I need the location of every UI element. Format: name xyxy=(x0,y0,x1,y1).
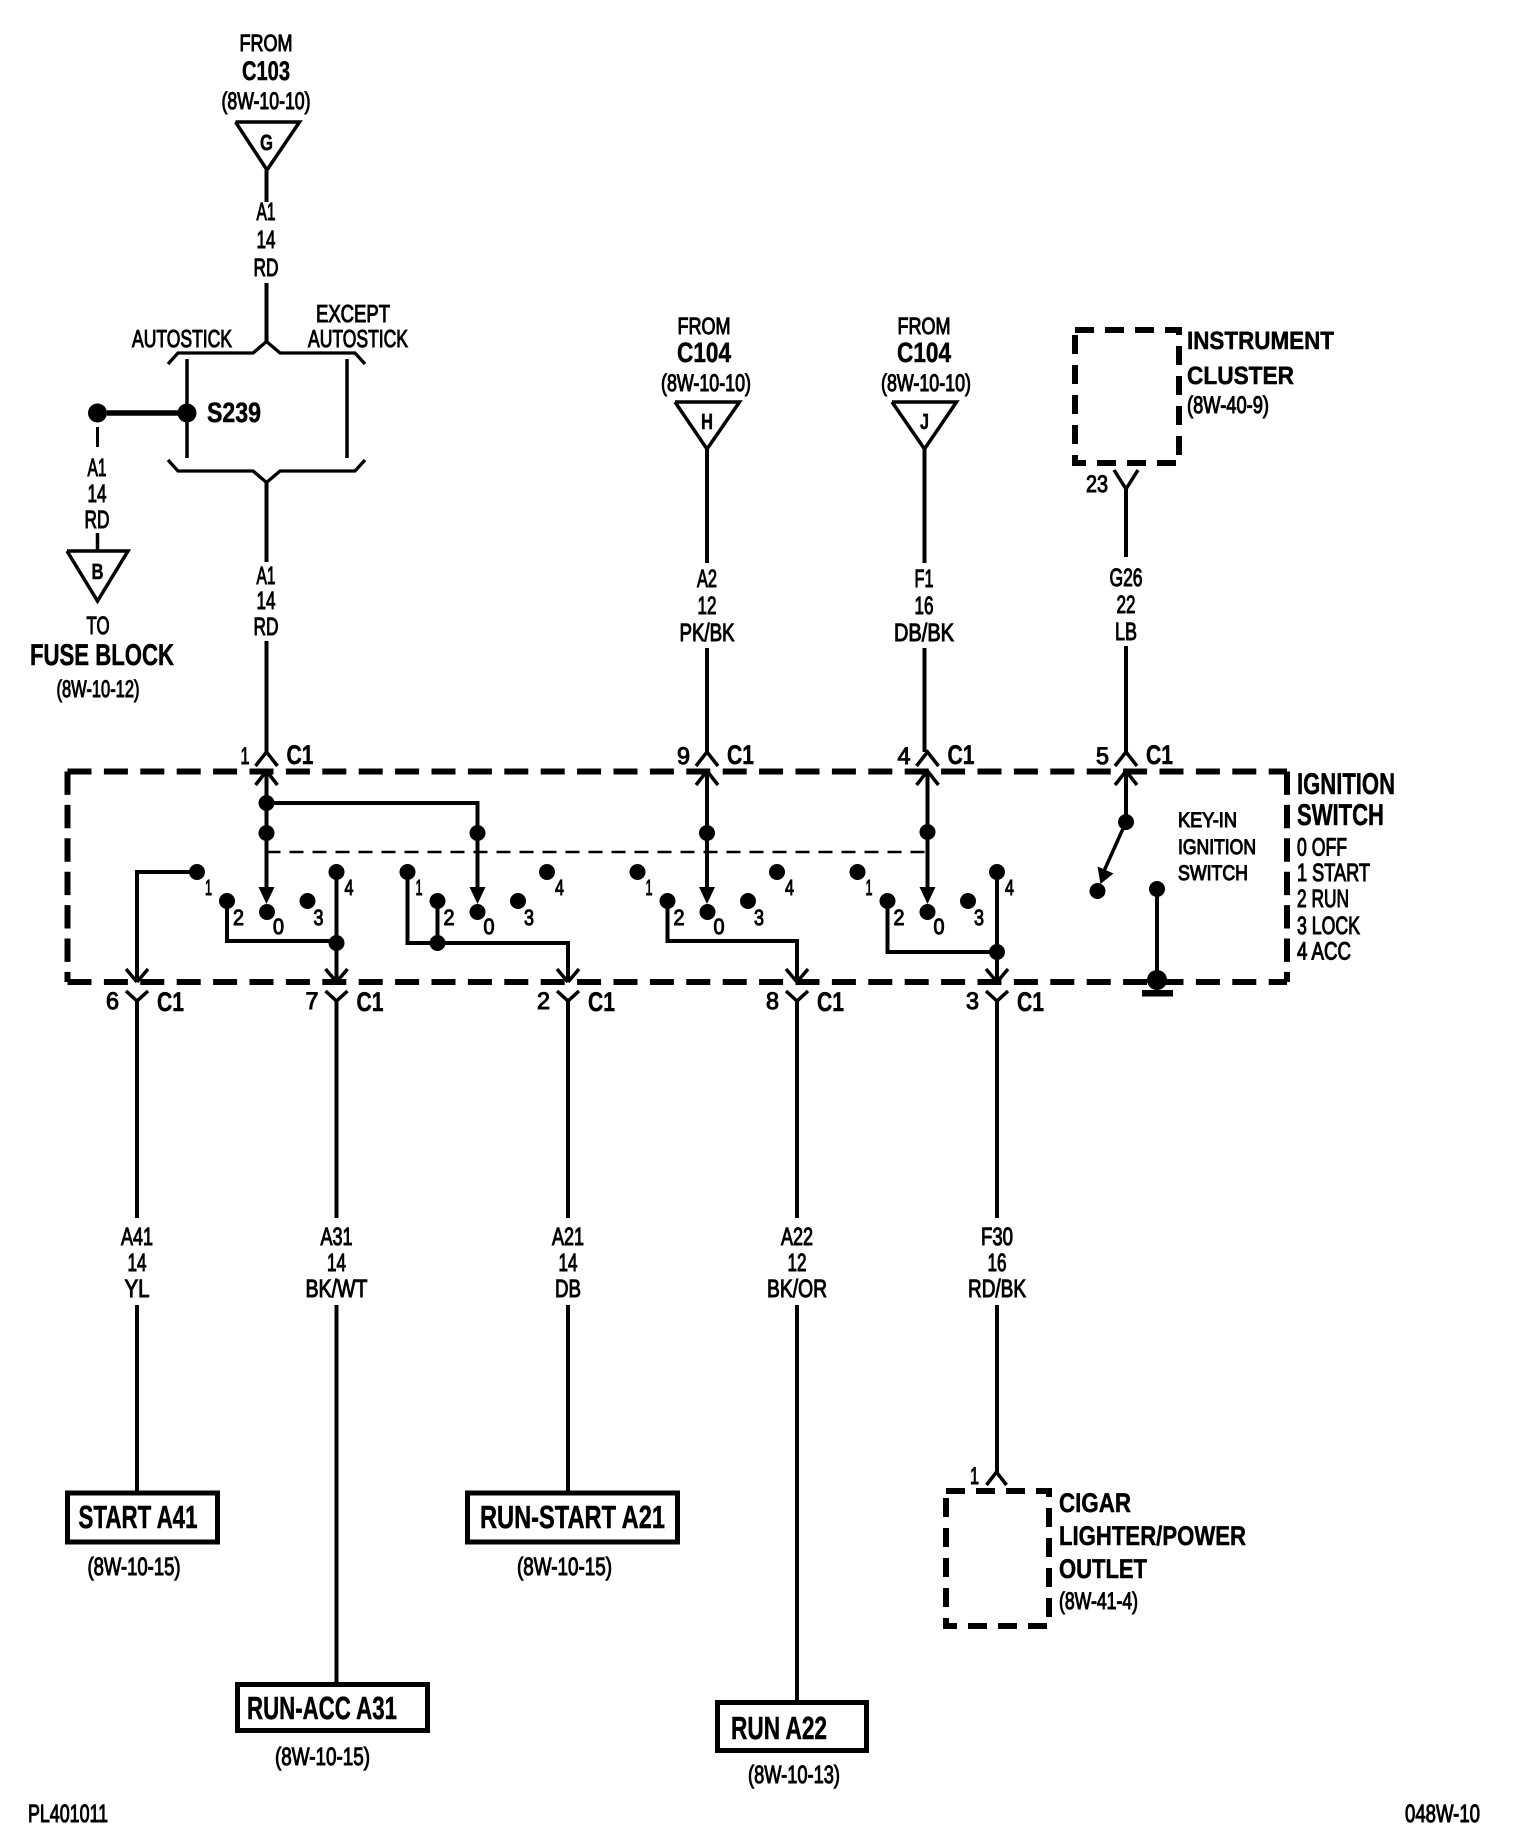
svg-text:14: 14 xyxy=(88,480,107,508)
svg-text:(8W-10-10): (8W-10-10) xyxy=(661,370,751,397)
svg-text:G26: G26 xyxy=(1110,564,1143,592)
wire pin9 feed to wiper 3 xyxy=(699,771,715,904)
key-in ignition switch xyxy=(1090,771,1135,899)
svg-text:FROM: FROM xyxy=(898,313,951,339)
node INSTRUMENT CLUSTER label xyxy=(1187,327,1334,419)
wire key-in switch to ground xyxy=(1149,881,1165,975)
svg-text:16: 16 xyxy=(988,1249,1007,1277)
svg-text:B: B xyxy=(92,559,104,584)
svg-text:0: 0 xyxy=(714,914,725,939)
svg-text:A1: A1 xyxy=(257,198,276,226)
svg-text:H: H xyxy=(701,409,713,434)
svg-text:SWITCH: SWITCH xyxy=(1297,799,1384,832)
svg-text:C1: C1 xyxy=(287,740,314,770)
connector C1 pin 1 xyxy=(241,740,314,785)
svg-text:14: 14 xyxy=(327,1249,346,1277)
wire F30 16 RD/BK (pin 3 to cigar lighter) xyxy=(968,1001,1026,1472)
svg-text:PK/BK: PK/BK xyxy=(680,619,735,647)
svg-text:2: 2 xyxy=(444,905,455,930)
node IGNITION SWITCH label xyxy=(1297,768,1395,832)
connector triangle B (to fuse block) xyxy=(67,551,128,601)
svg-text:9: 9 xyxy=(677,743,690,770)
wire A2 12 PK/BK xyxy=(680,449,735,752)
wire branch pin1 to wiper 2 xyxy=(267,803,486,904)
svg-text:1: 1 xyxy=(205,875,212,900)
svg-text:4: 4 xyxy=(785,875,794,900)
node RUN-START A21 xyxy=(468,1493,678,1542)
svg-text:3 LOCK: 3 LOCK xyxy=(1297,912,1360,940)
svg-text:C1: C1 xyxy=(727,740,754,770)
svg-text:1 START: 1 START xyxy=(1297,859,1370,887)
svg-text:AUTOSTICK: AUTOSTICK xyxy=(132,326,232,353)
svg-text:A31: A31 xyxy=(321,1223,353,1251)
connector triangle G (from C103) xyxy=(236,122,300,170)
svg-text:0: 0 xyxy=(484,914,495,939)
wire except-autostick branch xyxy=(345,359,349,458)
svg-text:C1: C1 xyxy=(1146,740,1173,770)
connector C1 pin 6 xyxy=(106,987,184,1017)
svg-text:1: 1 xyxy=(241,743,250,770)
svg-text:S239: S239 xyxy=(207,397,261,428)
svg-text:0: 0 xyxy=(934,914,945,939)
svg-text:RD: RD xyxy=(254,254,279,282)
svg-text:TO: TO xyxy=(87,612,110,640)
svg-text:3: 3 xyxy=(974,905,984,930)
svg-text:8: 8 xyxy=(766,988,779,1015)
wire A1 14 RD (to fuse block) xyxy=(85,427,110,551)
svg-text:1: 1 xyxy=(416,875,423,900)
node KEY-IN IGNITION SWITCH label xyxy=(1178,809,1256,885)
connector C1 pin 9 xyxy=(677,740,754,785)
svg-text:1: 1 xyxy=(646,875,653,900)
svg-text:0: 0 xyxy=(273,914,284,939)
svg-text:(8W-10-10): (8W-10-10) xyxy=(222,88,311,115)
svg-text:A21: A21 xyxy=(552,1223,584,1251)
svg-text:INSTRUMENT: INSTRUMENT xyxy=(1187,327,1334,355)
svg-text:2: 2 xyxy=(233,905,244,930)
svg-text:CIGAR: CIGAR xyxy=(1059,1488,1131,1518)
wire contacts 1,2 of bank2 to pin 2 xyxy=(408,875,580,982)
wire contacts 2,4 of bank1 to pin 7 xyxy=(227,875,348,982)
svg-text:3: 3 xyxy=(754,905,764,930)
svg-text:3: 3 xyxy=(524,905,534,930)
connector C1 pin 5 xyxy=(1096,740,1173,785)
svg-text:A2: A2 xyxy=(697,565,717,593)
svg-text:(8W-10-10): (8W-10-10) xyxy=(881,370,971,397)
svg-text:LB: LB xyxy=(1115,618,1137,646)
svg-text:AUTOSTICK: AUTOSTICK xyxy=(308,326,408,353)
svg-text:LIGHTER/POWER: LIGHTER/POWER xyxy=(1059,1521,1246,1551)
svg-text:16: 16 xyxy=(915,592,934,620)
svg-text:A1: A1 xyxy=(257,562,276,590)
node switch position legend xyxy=(1297,834,1370,966)
connector C1 pin 2 xyxy=(537,987,615,1017)
svg-text:(8W-10-12): (8W-10-12) xyxy=(57,676,140,703)
svg-text:14: 14 xyxy=(128,1249,147,1277)
svg-text:IGNITION: IGNITION xyxy=(1297,768,1395,801)
ground xyxy=(1142,970,1173,997)
svg-text:C103: C103 xyxy=(242,56,290,86)
svg-text:C1: C1 xyxy=(357,987,384,1017)
svg-text:C104: C104 xyxy=(677,337,731,368)
wire autostick branch xyxy=(185,359,189,458)
wire A21 14 DB (pin 2 to RUN-START A21) xyxy=(552,1001,584,1491)
wire pin1 feed to wiper 1 xyxy=(259,771,275,904)
svg-text:23: 23 xyxy=(1086,471,1108,498)
svg-text:048W-10: 048W-10 xyxy=(1405,1800,1480,1828)
svg-text:0 OFF: 0 OFF xyxy=(1297,834,1347,862)
svg-text:C1: C1 xyxy=(157,987,184,1017)
svg-text:C1: C1 xyxy=(817,987,844,1017)
node FROM C104 (H) label xyxy=(661,313,751,397)
connector triangle J (from C104) xyxy=(892,402,957,449)
svg-text:4: 4 xyxy=(1005,875,1014,900)
ignition switch box xyxy=(68,772,1288,983)
svg-text:(8W-10-15): (8W-10-15) xyxy=(275,1743,370,1771)
svg-text:RUN-START A21: RUN-START A21 xyxy=(480,1499,665,1535)
connector C1 pin 4 xyxy=(898,740,975,785)
svg-text:J: J xyxy=(920,409,929,434)
mechanical linkage dashed line xyxy=(267,851,928,854)
svg-text:A22: A22 xyxy=(781,1223,813,1251)
connector triangle H (from C104) xyxy=(675,402,740,449)
svg-text:2 RUN: 2 RUN xyxy=(1297,885,1349,913)
wire G26 22 LB xyxy=(1110,489,1143,752)
svg-text:CLUSTER: CLUSTER xyxy=(1187,362,1294,390)
connector pin 23 (instrument cluster) xyxy=(1086,470,1138,498)
node CIGAR LIGHTER/POWER OUTLET label xyxy=(1059,1488,1246,1615)
wire A1 14 RD (to ignition switch pin 1) xyxy=(254,482,279,752)
svg-text:2: 2 xyxy=(894,905,905,930)
svg-text:4: 4 xyxy=(555,875,564,900)
svg-text:PL401011: PL401011 xyxy=(28,1800,108,1828)
switch bank contacts (section 2) xyxy=(400,864,565,939)
svg-text:7: 7 xyxy=(306,988,319,1015)
cigar lighter/power outlet box xyxy=(946,1491,1049,1626)
connector C1 pin 7 xyxy=(306,987,384,1017)
svg-text:G: G xyxy=(260,130,273,155)
svg-text:C1: C1 xyxy=(948,740,975,770)
svg-text:F30: F30 xyxy=(981,1223,1013,1251)
svg-text:4: 4 xyxy=(345,875,354,900)
wire pin4 feed to wiper 4 xyxy=(920,771,936,904)
svg-text:(8W-40-9): (8W-40-9) xyxy=(1187,392,1269,419)
svg-text:EXCEPT: EXCEPT xyxy=(316,301,390,328)
svg-text:1: 1 xyxy=(970,1463,979,1490)
svg-text:SWITCH: SWITCH xyxy=(1178,862,1248,885)
svg-text:(8W-41-4): (8W-41-4) xyxy=(1059,1588,1138,1615)
splice S239 xyxy=(88,397,261,428)
svg-text:DB: DB xyxy=(555,1275,581,1303)
svg-text:IGNITION: IGNITION xyxy=(1178,836,1256,859)
node EXCEPT AUTOSTICK label xyxy=(308,301,408,353)
instrument cluster box xyxy=(1075,330,1179,463)
brace bottom (variant merge) xyxy=(168,460,365,483)
svg-text:YL: YL xyxy=(125,1275,150,1303)
node START A41 xyxy=(68,1493,218,1542)
svg-text:START A41: START A41 xyxy=(79,1499,198,1535)
switch bank contacts (section 1) xyxy=(189,864,354,939)
svg-text:DB/BK: DB/BK xyxy=(894,619,954,647)
svg-text:(8W-10-15): (8W-10-15) xyxy=(517,1553,612,1581)
svg-text:FROM: FROM xyxy=(678,313,731,339)
svg-text:FUSE BLOCK: FUSE BLOCK xyxy=(30,639,174,672)
wire contact 1 of bank1 to pin 6 xyxy=(126,872,197,982)
switch bank contacts (section 3) xyxy=(630,864,795,939)
svg-text:3: 3 xyxy=(966,988,979,1015)
connector C1 pin 8 xyxy=(766,987,844,1017)
svg-text:3: 3 xyxy=(314,905,324,930)
svg-text:2: 2 xyxy=(537,988,550,1015)
svg-text:14: 14 xyxy=(257,226,276,254)
wire A31 14 BK/WT (pin 7 to RUN-ACC A31) xyxy=(306,1001,368,1682)
svg-text:5: 5 xyxy=(1096,743,1109,770)
svg-text:RUN-ACC A31: RUN-ACC A31 xyxy=(247,1690,397,1726)
svg-text:6: 6 xyxy=(106,988,119,1015)
wire contacts 2,4 of bank4 to pin 3 xyxy=(888,875,1009,982)
svg-text:(8W-10-13): (8W-10-13) xyxy=(748,1761,840,1789)
node RUN A22 xyxy=(718,1703,867,1751)
node RUN-ACC A31 xyxy=(238,1685,428,1731)
svg-text:C104: C104 xyxy=(897,337,951,368)
svg-text:14: 14 xyxy=(559,1249,578,1277)
svg-text:1: 1 xyxy=(866,875,873,900)
svg-text:A1: A1 xyxy=(88,454,107,482)
wire A41 14 YL (pin 6 to START A41) xyxy=(121,1001,153,1491)
svg-text:4: 4 xyxy=(898,743,911,770)
svg-text:BK/OR: BK/OR xyxy=(767,1275,827,1303)
wire A22 12 BK/OR (pin 8 to RUN A22) xyxy=(767,1001,827,1700)
node FROM C104 (J) label xyxy=(881,313,971,397)
node TO FUSE BLOCK label xyxy=(30,612,174,703)
svg-text:RUN A22: RUN A22 xyxy=(731,1710,827,1746)
svg-text:KEY-IN: KEY-IN xyxy=(1178,809,1237,832)
svg-text:12: 12 xyxy=(698,592,717,620)
wire F1 16 DB/BK xyxy=(894,449,954,752)
connector C1 pin 3 xyxy=(966,987,1044,1017)
svg-text:14: 14 xyxy=(257,587,276,615)
svg-text:2: 2 xyxy=(674,905,685,930)
node FROM C103 label xyxy=(222,30,311,115)
svg-text:FROM: FROM xyxy=(240,30,293,56)
svg-text:12: 12 xyxy=(788,1249,807,1277)
switch bank contacts (section 4) xyxy=(850,864,1015,939)
svg-text:(8W-10-15): (8W-10-15) xyxy=(88,1553,181,1581)
svg-text:C1: C1 xyxy=(1017,987,1044,1017)
connector pin 1 (cigar lighter) xyxy=(970,1463,1007,1490)
wire contact 2 of bank3 to pin 8 xyxy=(668,905,809,982)
svg-text:RD: RD xyxy=(254,613,279,641)
svg-text:C1: C1 xyxy=(588,987,615,1017)
svg-text:OUTLET: OUTLET xyxy=(1059,1554,1147,1584)
svg-text:BK/WT: BK/WT xyxy=(306,1275,368,1303)
svg-text:A41: A41 xyxy=(121,1223,153,1251)
svg-text:RD/BK: RD/BK xyxy=(968,1275,1026,1303)
svg-text:4 ACC: 4 ACC xyxy=(1297,938,1351,966)
wire A1 14 RD (C103 to splice braces) xyxy=(254,170,279,343)
svg-text:F1: F1 xyxy=(915,565,934,593)
svg-text:22: 22 xyxy=(1117,591,1136,619)
brace top (variant split) xyxy=(168,342,365,365)
svg-text:RD: RD xyxy=(85,506,110,534)
